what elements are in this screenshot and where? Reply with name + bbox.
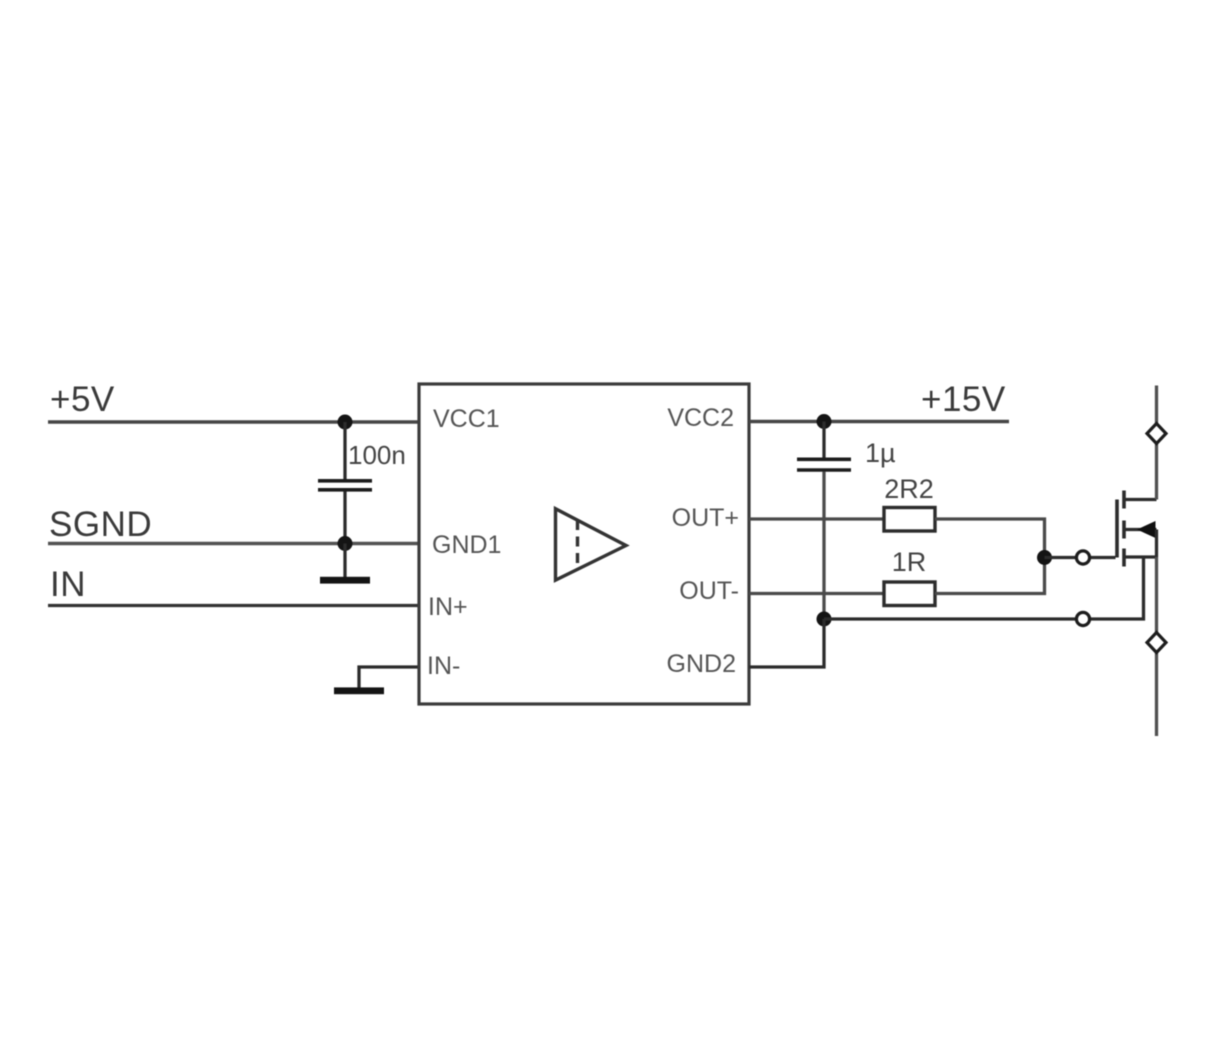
junction gate node: [1037, 550, 1052, 565]
ground (signal ground bar): [320, 577, 370, 584]
connector diamond drain: [1147, 424, 1166, 444]
resistor R1 2R2: [884, 508, 935, 532]
transistor Q1 body-source tie: [1155, 530, 1158, 558]
pin label OUT+: [672, 504, 739, 532]
ground (IN- ground bar): [334, 687, 384, 694]
connector diamond source: [1147, 633, 1166, 653]
wire IN- stub: [359, 667, 419, 688]
wire VCC2 rail: [749, 420, 1009, 424]
svg-text:+15V: +15V: [921, 380, 1006, 419]
wire OUT+ to R1: [749, 517, 883, 520]
transistor Q1 body stub with arrow: [1124, 521, 1157, 538]
wire C1 bottom lead to SGND: [343, 492, 346, 544]
pin label GND2: [667, 650, 736, 678]
wire R2 to gate node: [935, 558, 1045, 594]
pin label OUT-: [679, 577, 739, 605]
IC U1 outline: [419, 384, 749, 704]
value label 1R: [892, 547, 927, 577]
wire gate node to Q1 gate: [1045, 556, 1116, 559]
transistor Q1 channel segments: [1122, 491, 1126, 567]
net label SGND: [49, 505, 152, 544]
wire source rail: [1155, 557, 1158, 736]
svg-text:1µ: 1µ: [865, 438, 896, 468]
svg-text:+5V: +5V: [50, 380, 115, 419]
pin label IN-: [427, 652, 460, 680]
svg-text:IN-: IN-: [427, 652, 460, 680]
wire SGND rail: [48, 542, 419, 546]
buffer isolation dashed line: [576, 520, 579, 570]
svg-text:GND2: GND2: [667, 650, 736, 678]
transistor Q1 drain stub: [1124, 498, 1157, 501]
svg-text:1R: 1R: [892, 547, 927, 577]
transistor Q1 gate bar: [1115, 500, 1119, 558]
wire ground lead: [343, 544, 346, 578]
wire C1 top lead: [343, 422, 346, 480]
svg-text:2R2: 2R2: [884, 474, 934, 504]
connector circle gate: [1076, 551, 1089, 564]
transistor Q1 source stub: [1124, 555, 1157, 558]
pin label IN+: [428, 593, 468, 621]
connector circle source return: [1076, 612, 1089, 625]
value label 2R2: [884, 474, 934, 504]
wire +5V rail: [48, 420, 419, 424]
svg-text:IN+: IN+: [428, 593, 468, 621]
wire IN to pin IN+: [48, 604, 419, 607]
wire C2 bottom lead to GND2 net: [822, 472, 825, 620]
net label +5V: [50, 380, 115, 419]
pin label VCC1: [433, 405, 500, 433]
capacitor C1: [318, 481, 372, 490]
pin label GND1: [432, 531, 501, 559]
svg-text:VCC1: VCC1: [433, 405, 500, 433]
junction +5V / C1: [338, 415, 353, 430]
svg-text:GND1: GND1: [432, 531, 501, 559]
value label 100n: [348, 440, 406, 470]
value label 1u: [865, 438, 896, 468]
svg-text:OUT-: OUT-: [679, 577, 739, 605]
junction VCC2 / C2: [817, 414, 832, 429]
junction GND2 / source return: [817, 612, 832, 627]
junction SGND / ground: [338, 536, 353, 551]
svg-text:IN: IN: [50, 565, 86, 604]
wire R1 to gate node: [935, 519, 1045, 558]
wire drain rail: [1155, 386, 1158, 500]
svg-text:OUT+: OUT+: [672, 504, 739, 532]
svg-text:VCC2: VCC2: [667, 404, 734, 432]
capacitor C2: [797, 459, 851, 470]
buffer amplifier symbol inside U1: [556, 509, 627, 581]
svg-text:100n: 100n: [348, 440, 406, 470]
net label +15V: [921, 380, 1006, 419]
wire OUT- to R2: [749, 592, 883, 595]
wire GND2 pin: [749, 619, 824, 667]
wire source return: [824, 557, 1144, 620]
resistor R2 1R: [884, 582, 935, 606]
net label IN: [50, 565, 86, 604]
svg-text:SGND: SGND: [49, 505, 152, 544]
wire C2 top lead: [822, 422, 825, 458]
pin label VCC2: [667, 404, 734, 432]
